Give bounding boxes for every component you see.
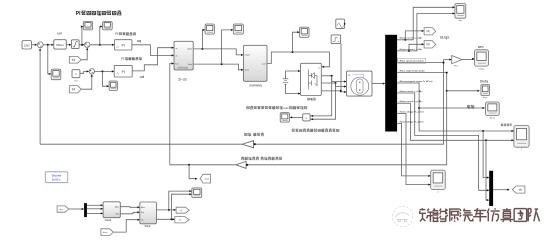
svg-text:Ubeta: Ubeta — [245, 69, 250, 72]
svg-text:Ualpha: Ualpha — [245, 55, 250, 57]
svg-text:wm: wm — [478, 45, 484, 49]
svg-text:<Stator current is_b (A)>: <Stator current is_b (A)> — [399, 48, 424, 51]
svg-text:<Rotor speed wm (rad/s)>: <Rotor speed wm (rad/s)> — [399, 60, 425, 63]
svg-text:<Stator voltage Vs_d (V)>: <Stator voltage Vs_d (V)> — [399, 110, 425, 113]
svg-text:theta: theta — [480, 79, 488, 83]
svg-text:PI: PI — [76, 11, 81, 17]
svg-text:PI: PI — [121, 44, 124, 48]
svg-text:Discrete: Discrete — [52, 173, 62, 177]
svg-text:PI: PI — [122, 70, 125, 74]
svg-text:Ualpha: Ualpha — [187, 49, 192, 51]
svg-text:ud: ud — [140, 74, 144, 79]
svg-text:<Stator current is_a (A)>: <Stator current is_a (A)> — [399, 37, 424, 40]
svg-text:PI: PI — [121, 57, 124, 61]
svg-text:1000: 1000 — [24, 44, 30, 47]
svg-text:<Stator current is_d (A)>: <Stator current is_d (A)> — [399, 90, 424, 93]
svg-text:<Stator current is_q (A)>: <Stator current is_q (A)> — [399, 100, 424, 103]
svg-text:<Stator voltage Vs_q (V)>: <Stator voltage Vs_q (V)> — [399, 120, 425, 123]
svg-text:dref: dref — [74, 81, 78, 83]
svg-text:ud: ud — [175, 55, 177, 57]
svg-text:m: m — [348, 74, 350, 77]
svg-text:[id]: [id] — [72, 89, 75, 91]
svg-text:Beta: Beta — [116, 213, 120, 216]
svg-text:Tha: Tha — [141, 220, 144, 222]
svg-text:Park: Park — [145, 224, 151, 228]
svg-text:SVPWM1: SVPWM1 — [249, 84, 262, 88]
svg-text:uq: uq — [175, 48, 177, 50]
svg-text:[iq]: [iq] — [72, 60, 75, 62]
svg-text:Clark: Clark — [105, 218, 112, 222]
svg-text:uq: uq — [137, 38, 141, 43]
svg-text:idiq: idiq — [459, 20, 462, 22]
svg-text:[iq]: [iq] — [427, 44, 430, 46]
svg-text:2e-05 s.: 2e-05 s. — [52, 177, 62, 181]
svg-text:2r~2s: 2r~2s — [178, 78, 187, 82]
svg-text:<Electromagnetic torque Te (N*: <Electromagnetic torque Te (N*m)> — [399, 80, 434, 83]
svg-text:PI: PI — [115, 32, 118, 36]
svg-text:udc: udc — [284, 106, 289, 110]
svg-text:PIDout: PIDout — [56, 44, 64, 47]
svg-text:(rad/s): (rad/s) — [479, 69, 485, 71]
svg-text:ASR: ASR — [57, 32, 62, 36]
svg-text:Alpha: Alpha — [115, 206, 119, 209]
svg-text:pulse: pulse — [262, 63, 266, 65]
svg-text:<Rotor angle thetam (rad)>: <Rotor angle thetam (rad)> — [399, 70, 426, 73]
svg-text:id,iqs: id,iqs — [440, 34, 449, 39]
svg-text:(N.m): (N.m) — [490, 117, 495, 119]
svg-text:[id]: [id] — [427, 31, 430, 33]
